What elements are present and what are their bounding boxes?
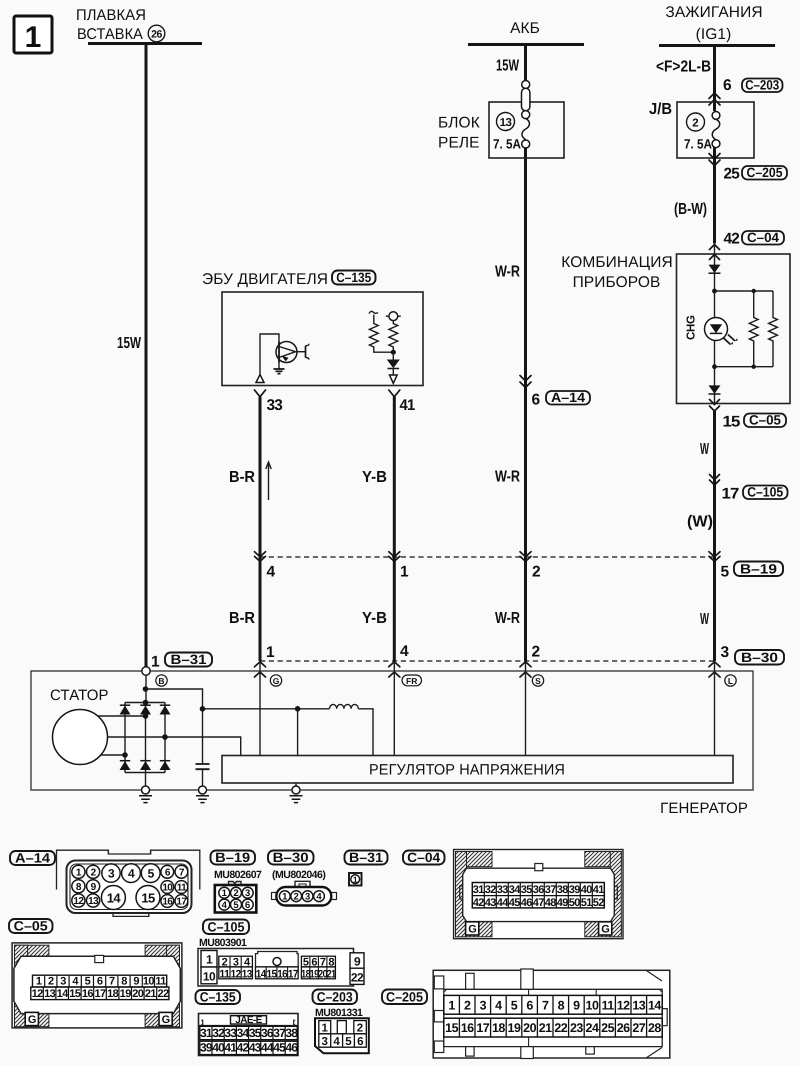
ECU resistor R4 (right) with sensor circle xyxy=(386,312,401,352)
svg-text:C–203: C–203 xyxy=(317,990,353,1005)
svg-text:1: 1 xyxy=(151,654,160,671)
svg-text:13: 13 xyxy=(44,988,56,1000)
svg-text:37: 37 xyxy=(545,884,557,896)
bridge diode D6 xyxy=(160,761,171,770)
svg-text:3: 3 xyxy=(321,1036,327,1048)
svg-text:20: 20 xyxy=(132,988,144,1000)
svg-text:28: 28 xyxy=(648,1021,661,1035)
svg-text:B–31: B–31 xyxy=(349,850,384,865)
svg-text:36: 36 xyxy=(261,1026,274,1040)
svg-text:26: 26 xyxy=(617,1021,630,1035)
node junctions on B rail xyxy=(143,686,149,692)
terminal S xyxy=(532,675,543,686)
svg-text:11: 11 xyxy=(177,883,187,894)
svg-text:2: 2 xyxy=(464,998,471,1012)
svg-text:1: 1 xyxy=(282,892,288,903)
svg-text:3: 3 xyxy=(108,866,115,880)
svg-text:MU802607: MU802607 xyxy=(214,869,262,881)
svg-text:15: 15 xyxy=(445,1021,458,1035)
svg-text:48: 48 xyxy=(545,897,557,909)
pin 42 connector C-04 xyxy=(724,230,785,248)
ground 1 xyxy=(139,786,152,803)
connector C-105 pinout xyxy=(198,949,364,987)
combination meter box xyxy=(677,254,791,404)
svg-text:33: 33 xyxy=(267,397,284,414)
svg-text:3: 3 xyxy=(245,888,250,899)
svg-text:42: 42 xyxy=(473,897,485,909)
diode top in meter xyxy=(709,265,721,274)
svg-text:31: 31 xyxy=(473,884,485,896)
svg-text:A–14: A–14 xyxy=(15,851,51,866)
connector B-30 pinout xyxy=(272,881,337,905)
svg-text:ПЛАВКАЯ: ПЛАВКАЯ xyxy=(76,7,146,24)
node joining ECU resistors xyxy=(391,350,396,355)
svg-text:43: 43 xyxy=(485,897,497,909)
svg-text:2: 2 xyxy=(222,956,228,968)
svg-text:Y-B: Y-B xyxy=(362,469,387,486)
svg-text:4: 4 xyxy=(128,866,135,880)
connector B-19 label xyxy=(734,562,783,577)
svg-text:20: 20 xyxy=(523,1021,536,1035)
svg-text:32: 32 xyxy=(485,884,497,896)
svg-text:4: 4 xyxy=(333,1036,340,1048)
svg-text:C–203: C–203 xyxy=(745,78,779,93)
svg-text:12: 12 xyxy=(73,896,84,907)
svg-text:6: 6 xyxy=(245,900,250,911)
svg-text:19: 19 xyxy=(508,1021,521,1035)
svg-text:1: 1 xyxy=(25,21,42,54)
svg-text:1: 1 xyxy=(448,998,455,1012)
chevrons at dashed line 2 xyxy=(255,662,266,667)
svg-text:B–31: B–31 xyxy=(171,652,208,667)
svg-text:СТАТОР: СТАТОР xyxy=(50,687,109,704)
svg-text:G: G xyxy=(162,1014,170,1026)
node bottom of lamp branch xyxy=(712,364,717,369)
svg-text:38: 38 xyxy=(557,884,569,896)
svg-text:9: 9 xyxy=(354,955,361,969)
svg-text:8: 8 xyxy=(121,976,127,988)
svg-text:4: 4 xyxy=(495,998,502,1012)
svg-text:17: 17 xyxy=(476,1021,489,1035)
wire 15W from fusible link to generator B terminal xyxy=(145,44,148,667)
svg-text:15: 15 xyxy=(267,969,277,981)
svg-text:(B-W): (B-W) xyxy=(674,201,707,218)
ECU internal wire to transistor xyxy=(260,334,279,375)
chevrons at A-14 xyxy=(520,376,531,388)
svg-text:11: 11 xyxy=(601,998,614,1012)
svg-text:12: 12 xyxy=(617,998,630,1012)
svg-text:5: 5 xyxy=(85,976,91,988)
connector A-14 pinout xyxy=(57,850,200,916)
svg-text:6: 6 xyxy=(357,1036,363,1048)
svg-text:JAE-E: JAE-E xyxy=(235,1015,262,1026)
svg-text:3: 3 xyxy=(233,956,239,968)
meter internal wire xyxy=(714,244,716,404)
svg-text:5: 5 xyxy=(233,900,239,911)
bridge diode D2 xyxy=(140,705,151,714)
svg-text:46: 46 xyxy=(521,897,533,909)
svg-text:45: 45 xyxy=(509,897,521,909)
svg-text:31: 31 xyxy=(200,1026,213,1040)
svg-text:23: 23 xyxy=(570,1021,583,1035)
connector C-04 pinout xyxy=(454,850,623,939)
svg-text:10: 10 xyxy=(162,883,173,894)
svg-text:CHG: CHG xyxy=(686,315,698,340)
svg-text:4: 4 xyxy=(400,643,409,660)
B wire inside generator xyxy=(145,675,147,702)
page number box 1 xyxy=(14,16,52,54)
svg-text:АКБ: АКБ xyxy=(510,20,540,37)
fuse number 13 xyxy=(497,113,515,131)
ECU diode D1 xyxy=(387,355,400,375)
svg-text:18: 18 xyxy=(107,988,119,1000)
svg-text:2: 2 xyxy=(233,888,238,899)
svg-text:ЗАЖИГАНИЯ: ЗАЖИГАНИЯ xyxy=(665,4,762,21)
svg-text:26: 26 xyxy=(151,29,162,41)
connector B-19 label xyxy=(211,851,256,865)
svg-text:24: 24 xyxy=(586,1021,599,1035)
wire W below meter xyxy=(713,411,716,661)
svg-text:12: 12 xyxy=(32,988,44,1000)
svg-text:РЕГУЛЯТОР НАПРЯЖЕНИЯ: РЕГУЛЯТОР НАПРЯЖЕНИЯ xyxy=(369,762,565,779)
pin 25 connector C-205 xyxy=(724,165,788,183)
svg-text:37: 37 xyxy=(273,1026,286,1040)
svg-text:8: 8 xyxy=(328,956,334,968)
svg-text:1: 1 xyxy=(400,564,409,581)
svg-text:25: 25 xyxy=(724,166,741,183)
svg-text:9: 9 xyxy=(133,976,139,988)
svg-text:14: 14 xyxy=(57,988,70,1000)
connector B-19 pinout xyxy=(215,882,256,913)
svg-text:C–205: C–205 xyxy=(386,990,423,1005)
ECU resistor R3 (left) xyxy=(369,311,393,352)
svg-text:5: 5 xyxy=(721,564,730,581)
svg-text:33: 33 xyxy=(497,884,509,896)
svg-text:14: 14 xyxy=(648,998,661,1012)
svg-text:14: 14 xyxy=(256,969,267,981)
svg-text:7. 5A: 7. 5A xyxy=(493,137,521,152)
svg-text:13: 13 xyxy=(88,896,99,907)
chevrons entering meter xyxy=(710,245,720,260)
junction block J/B box xyxy=(649,101,754,158)
svg-text:41: 41 xyxy=(593,884,605,896)
svg-text:S: S xyxy=(535,676,541,686)
ignition bus bar xyxy=(659,44,775,47)
svg-text:43: 43 xyxy=(249,1041,262,1055)
svg-text:41: 41 xyxy=(224,1041,237,1055)
svg-text:5: 5 xyxy=(345,1036,352,1048)
svg-text:12: 12 xyxy=(231,969,241,981)
connector C-05 label xyxy=(9,919,53,933)
svg-text:44: 44 xyxy=(261,1041,274,1055)
svg-text:C–05: C–05 xyxy=(14,919,49,934)
svg-text:ЭБУ ДВИГАТЕЛЯ: ЭБУ ДВИГАТЕЛЯ xyxy=(202,271,328,288)
svg-text:17: 17 xyxy=(94,988,106,1000)
connector chevrons below J/B xyxy=(709,154,720,166)
relay block box (БЛОК РЕЛЕ) xyxy=(438,102,564,158)
svg-text:7. 5A: 7. 5A xyxy=(684,137,712,152)
svg-text:21: 21 xyxy=(327,969,336,981)
svg-text:7: 7 xyxy=(109,976,115,988)
svg-text:3: 3 xyxy=(60,976,66,988)
svg-text:B–19: B–19 xyxy=(740,562,777,577)
stator phase wire 3 xyxy=(101,754,126,756)
svg-text:46: 46 xyxy=(285,1041,298,1055)
terminal G xyxy=(270,675,281,686)
svg-text:5: 5 xyxy=(148,866,155,880)
svg-text:15: 15 xyxy=(141,890,155,905)
ground 3 xyxy=(290,786,303,803)
svg-text:10: 10 xyxy=(143,976,155,988)
connector B-31 pinout xyxy=(349,873,362,886)
svg-text:10: 10 xyxy=(203,970,216,984)
fuse element xyxy=(712,112,720,120)
svg-text:ГЕНЕРАТОР: ГЕНЕРАТОР xyxy=(660,800,748,817)
svg-text:13: 13 xyxy=(242,969,252,981)
svg-text:16: 16 xyxy=(461,1021,474,1035)
connector C-105 label xyxy=(203,920,249,935)
regulator ground lead xyxy=(295,783,297,786)
svg-text:(W): (W) xyxy=(687,514,713,531)
svg-text:36: 36 xyxy=(533,884,545,896)
svg-text:17: 17 xyxy=(176,897,187,908)
engine ECU box xyxy=(222,292,423,386)
svg-text:ПРИБОРОВ: ПРИБОРОВ xyxy=(573,274,661,291)
node to field coil branch xyxy=(200,706,206,712)
svg-text:27: 27 xyxy=(632,1021,645,1035)
bridge middle rail to ground xyxy=(145,773,147,787)
svg-text:4: 4 xyxy=(222,900,228,911)
dashed harness line 1 (B-19 interface) xyxy=(260,556,715,558)
dashed harness line 2 (B-30 interface) xyxy=(260,660,715,662)
svg-text:44: 44 xyxy=(497,897,510,909)
chevrons at dashed line 1 xyxy=(255,552,266,562)
svg-text:18: 18 xyxy=(492,1021,505,1035)
bridge diode D4 xyxy=(120,761,131,770)
internal wires from terminals to regulator xyxy=(259,662,261,756)
connector chevrons above J/B xyxy=(709,93,720,105)
svg-text:MU801331: MU801331 xyxy=(315,1007,363,1019)
svg-text:38: 38 xyxy=(285,1026,298,1040)
ground 2 xyxy=(196,786,209,803)
transistor ground xyxy=(274,363,285,374)
svg-text:13: 13 xyxy=(632,998,645,1012)
stator phase wire 2 (to S sense and right column) xyxy=(108,737,241,756)
svg-text:39: 39 xyxy=(200,1041,213,1055)
svg-text:5: 5 xyxy=(303,956,309,968)
B terminal circle at box edge xyxy=(142,667,150,675)
svg-text:13: 13 xyxy=(500,117,512,129)
connector C-203 label xyxy=(313,990,358,1005)
svg-text:10: 10 xyxy=(586,998,599,1012)
svg-text:FR: FR xyxy=(406,676,417,686)
svg-text:22: 22 xyxy=(554,1021,567,1035)
svg-text:<F>2L-B: <F>2L-B xyxy=(656,59,711,76)
svg-text:J/B: J/B xyxy=(649,101,672,118)
field coil (rotor winding) xyxy=(330,704,359,708)
svg-text:32: 32 xyxy=(212,1026,225,1040)
connector C-135 pinout xyxy=(199,1014,299,1056)
svg-text:MU803901: MU803901 xyxy=(199,937,247,949)
chevrons leaving meter xyxy=(710,400,720,412)
pin 6 connector C-203 xyxy=(723,77,783,94)
svg-text:B–30: B–30 xyxy=(273,850,309,865)
svg-text:17: 17 xyxy=(288,969,298,981)
svg-text:15: 15 xyxy=(69,988,81,1000)
connector B-30 label xyxy=(268,851,314,865)
svg-text:КОМБИНАЦИЯ: КОМБИНАЦИЯ xyxy=(561,254,672,271)
svg-text:35: 35 xyxy=(249,1026,262,1040)
svg-text:1: 1 xyxy=(36,976,42,988)
svg-text:3: 3 xyxy=(480,998,487,1012)
svg-text:8: 8 xyxy=(558,998,565,1012)
svg-text:11: 11 xyxy=(155,976,166,988)
transistor Q1 xyxy=(276,342,309,363)
resistor R1 in meter xyxy=(749,291,758,367)
svg-text:11: 11 xyxy=(219,969,229,981)
svg-text:B: B xyxy=(158,676,164,686)
svg-text:C–205: C–205 xyxy=(747,165,783,180)
svg-text:1: 1 xyxy=(353,875,358,885)
wire to field coil xyxy=(203,708,330,710)
svg-text:B–30: B–30 xyxy=(741,650,778,665)
svg-text:4: 4 xyxy=(267,564,276,581)
capacitor C1 xyxy=(196,764,210,786)
svg-text:16: 16 xyxy=(82,988,94,1000)
svg-text:16: 16 xyxy=(162,897,173,908)
svg-text:17: 17 xyxy=(722,486,739,503)
connector C-135 label xyxy=(196,990,241,1004)
svg-text:C–05: C–05 xyxy=(749,413,781,428)
stator phase wire 1 xyxy=(98,715,146,717)
svg-text:2: 2 xyxy=(692,118,698,130)
svg-text:42: 42 xyxy=(724,231,740,248)
svg-text:3: 3 xyxy=(721,644,730,661)
fuse element (wavy) xyxy=(522,119,530,140)
svg-text:52: 52 xyxy=(593,897,605,909)
svg-text:14: 14 xyxy=(107,890,122,905)
pin 15 connector C-05 xyxy=(723,413,787,431)
branch wire to resistors xyxy=(715,291,774,367)
terminal FR xyxy=(402,675,422,686)
svg-text:51: 51 xyxy=(581,897,593,909)
svg-text:2: 2 xyxy=(357,1023,363,1035)
svg-text:7: 7 xyxy=(542,998,549,1012)
chevrons at C-105 xyxy=(710,475,720,486)
svg-text:50: 50 xyxy=(569,897,581,909)
svg-text:9: 9 xyxy=(573,998,580,1012)
node top of lamp branch xyxy=(712,289,717,294)
wire from B node to capacitor branch xyxy=(146,689,203,764)
svg-text:B–19: B–19 xyxy=(215,850,250,865)
svg-text:C–04: C–04 xyxy=(747,230,779,245)
svg-text:W-R: W-R xyxy=(495,264,520,281)
svg-text:40: 40 xyxy=(581,884,593,896)
svg-text:3: 3 xyxy=(305,892,310,903)
svg-text:35: 35 xyxy=(521,884,533,896)
svg-text:1: 1 xyxy=(321,1023,328,1035)
pin 6 connector A-14 xyxy=(532,390,591,409)
svg-text:21: 21 xyxy=(145,988,157,1000)
svg-text:C–105: C–105 xyxy=(747,485,783,500)
terminal B xyxy=(156,675,167,686)
pin 17 connector C-105 xyxy=(722,485,788,503)
svg-text:25: 25 xyxy=(601,1021,614,1035)
fusible link symbol on battery wire xyxy=(522,81,530,149)
svg-text:47: 47 xyxy=(533,897,545,909)
svg-text:W-R: W-R xyxy=(495,610,520,627)
svg-text:1: 1 xyxy=(222,888,228,899)
svg-text:6: 6 xyxy=(723,77,732,94)
svg-text:ВСТАВКА: ВСТАВКА xyxy=(77,26,144,43)
svg-text:34: 34 xyxy=(509,884,522,896)
svg-text:21: 21 xyxy=(539,1021,552,1035)
svg-text:16: 16 xyxy=(277,969,287,981)
pin 33 chevron and wire B-R xyxy=(255,390,266,397)
svg-text:W-R: W-R xyxy=(495,469,520,486)
svg-text:45: 45 xyxy=(273,1041,286,1055)
svg-text:G: G xyxy=(28,1014,36,1026)
engine ECU title (ЭБУ ДВИГАТЕЛЯ C-135) xyxy=(202,270,376,288)
svg-text:2: 2 xyxy=(48,976,54,988)
svg-text:W: W xyxy=(700,611,710,628)
connector C-205 pinout xyxy=(433,969,670,1059)
svg-text:C–135: C–135 xyxy=(336,270,371,285)
node branch down to regulator xyxy=(295,706,301,712)
svg-text:РЕЛЕ: РЕЛЕ xyxy=(438,135,480,152)
svg-text:42: 42 xyxy=(237,1041,250,1055)
svg-text:22: 22 xyxy=(157,988,169,1000)
svg-text:Y-B: Y-B xyxy=(362,610,387,627)
svg-text:2: 2 xyxy=(532,644,540,661)
ECU output open triangle (pin 41 internal) xyxy=(390,375,398,383)
svg-text:22: 22 xyxy=(351,971,364,985)
fusible link bus bar xyxy=(88,42,202,45)
svg-text:1: 1 xyxy=(206,953,213,967)
svg-text:L: L xyxy=(728,676,733,686)
svg-text:6: 6 xyxy=(311,956,317,968)
svg-text:B-R: B-R xyxy=(229,469,255,486)
rectifier bridge rails xyxy=(125,702,165,704)
pin 41 chevron and wire Y-B xyxy=(389,390,400,397)
label fusible link (ПЛАВКАЯ ВСТАВКА 26) xyxy=(76,7,165,43)
resistor R2 in meter xyxy=(769,291,778,367)
diode bottom in meter xyxy=(709,385,721,394)
svg-text:15: 15 xyxy=(723,414,741,431)
connector B-30 label xyxy=(735,650,784,665)
svg-text:C–135: C–135 xyxy=(200,990,236,1005)
connector A-14 label xyxy=(10,851,55,865)
svg-text:33: 33 xyxy=(224,1026,237,1040)
bridge diode D1 xyxy=(120,705,131,714)
svg-text:C–04: C–04 xyxy=(407,850,440,865)
terminal L xyxy=(725,675,736,686)
svg-text:(IG1): (IG1) xyxy=(696,26,732,43)
svg-text:G: G xyxy=(601,924,609,936)
svg-text:15W: 15W xyxy=(496,58,520,75)
svg-text:2: 2 xyxy=(532,564,540,581)
svg-text:49: 49 xyxy=(557,897,569,909)
svg-text:5: 5 xyxy=(511,998,518,1012)
svg-text:39: 39 xyxy=(569,884,581,896)
svg-text:БЛОК: БЛОК xyxy=(438,115,480,132)
stator winding circle xyxy=(53,710,108,765)
connector C-205 label xyxy=(382,990,427,1005)
svg-text:G: G xyxy=(468,924,476,936)
connector C-05 pinout xyxy=(12,943,182,1028)
svg-text:19: 19 xyxy=(120,988,132,1000)
generator box xyxy=(31,671,753,790)
